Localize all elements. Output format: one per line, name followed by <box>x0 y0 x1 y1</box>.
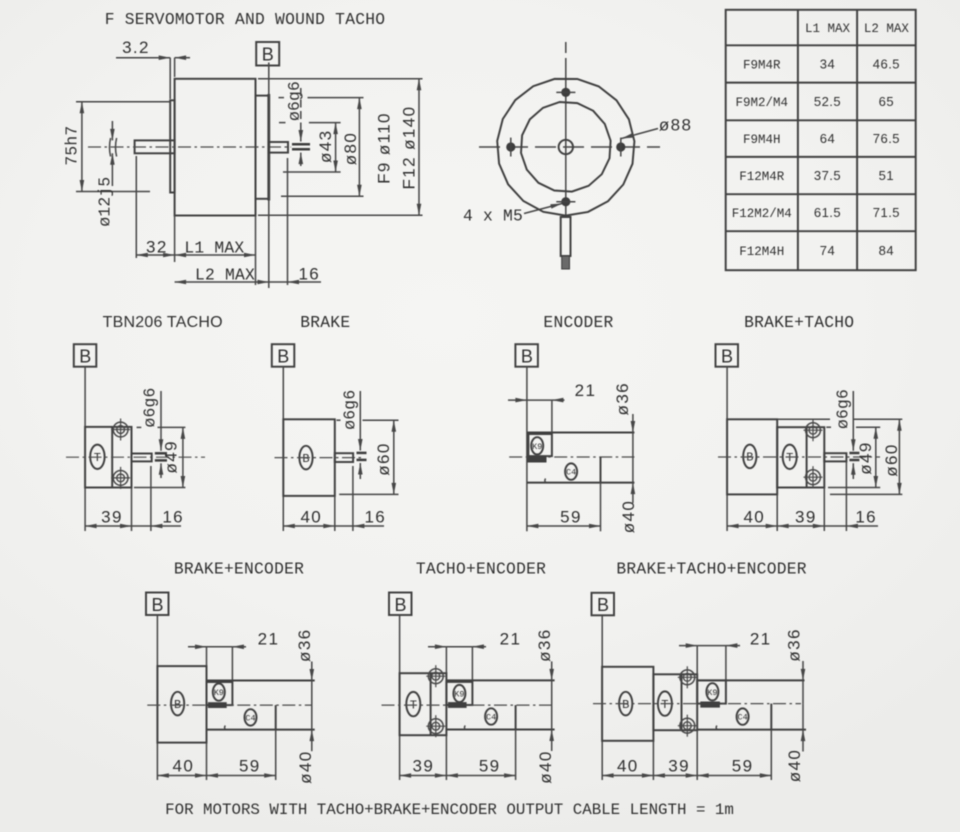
figure TBN206 TACHO <box>66 314 223 531</box>
cable tick <box>716 726 717 730</box>
svg-text:ø40: ø40 <box>785 749 804 783</box>
connector K9 box <box>207 682 233 705</box>
svg-text:40: 40 <box>300 508 322 527</box>
cable foot <box>700 702 720 708</box>
svg-text:59: 59 <box>239 757 261 776</box>
svg-text:ø36: ø36 <box>535 628 554 662</box>
svg-text:21: 21 <box>750 630 772 649</box>
bolt hole top <box>561 88 570 97</box>
svg-text:K9: K9 <box>532 442 542 452</box>
svg-text:76.5: 76.5 <box>873 131 900 146</box>
svg-text:16: 16 <box>364 508 386 527</box>
main side view: F servomotor <box>62 10 422 288</box>
shaft break arcs <box>110 138 117 157</box>
svg-text:B: B <box>302 452 309 466</box>
figure BRAKE <box>272 313 399 531</box>
dim 59 <box>600 483 602 532</box>
svg-text:B: B <box>521 347 533 367</box>
svg-text:K9: K9 <box>214 688 224 698</box>
svg-text:F SERVOMOTOR AND WOUND TACHO: F SERVOMOTOR AND WOUND TACHO <box>105 10 386 29</box>
front shaft <box>135 140 175 153</box>
svg-text:F9M2/M4: F9M2/M4 <box>736 96 789 110</box>
svg-text:T: T <box>94 451 101 465</box>
svg-text:B: B <box>79 347 91 367</box>
svg-text:75h7: 75h7 <box>62 126 81 166</box>
svg-text:C4: C4 <box>245 713 255 723</box>
svg-text:BRAKE+TACHO+ENCODER: BRAKE+TACHO+ENCODER <box>616 560 806 579</box>
svg-text:K9: K9 <box>707 688 717 698</box>
svg-text:ø60: ø60 <box>882 443 901 477</box>
figure ENCODER <box>508 313 638 533</box>
svg-text:ø80: ø80 <box>341 132 360 166</box>
rear shaft break bars <box>292 143 310 146</box>
bottom shaft <box>561 217 571 256</box>
encoder bottom contour ø40 <box>207 729 315 731</box>
svg-text:B: B <box>277 347 289 367</box>
encoder bottom contour ø40 <box>446 729 554 731</box>
centerline <box>509 456 634 458</box>
svg-text:C4: C4 <box>486 713 496 723</box>
screws <box>678 666 697 688</box>
front view <box>463 42 692 269</box>
screws <box>804 419 823 441</box>
svg-text:C4: C4 <box>566 468 576 478</box>
svg-text:32: 32 <box>146 238 168 257</box>
svg-text:ø6g6: ø6g6 <box>834 389 853 429</box>
tacho body <box>777 427 824 487</box>
cable tick <box>545 479 546 483</box>
bottom extension lines <box>135 156 137 258</box>
connector B <box>299 446 312 470</box>
svg-text:59: 59 <box>479 757 501 776</box>
cable tick <box>464 726 465 730</box>
bottom dims 39 / 59 <box>445 735 447 780</box>
svg-text:BRAKE+TACHO: BRAKE+TACHO <box>744 313 854 332</box>
cable foot <box>527 456 547 463</box>
svg-text:65: 65 <box>879 94 894 109</box>
bolt hole left <box>506 142 515 151</box>
svg-text:21: 21 <box>575 381 597 400</box>
svg-text:C4: C4 <box>737 713 747 723</box>
svg-text:40: 40 <box>743 508 765 527</box>
svg-text:16: 16 <box>855 508 877 527</box>
connector C4 <box>245 709 257 725</box>
horizontal centerline <box>479 146 660 148</box>
svg-text:16: 16 <box>162 508 184 527</box>
brake body <box>283 419 335 496</box>
tacho body <box>400 673 447 735</box>
motor body <box>175 79 256 216</box>
svg-text:BRAKE+ENCODER: BRAKE+ENCODER <box>174 560 304 579</box>
svg-text:B: B <box>721 347 733 367</box>
svg-text:T: T <box>661 698 668 712</box>
svg-text:40: 40 <box>173 757 195 776</box>
svg-text:ø40: ø40 <box>536 750 555 784</box>
svg-text:39: 39 <box>795 508 817 527</box>
shaft <box>335 453 353 462</box>
svg-text:F12 ø140: F12 ø140 <box>400 106 419 190</box>
rear housing <box>256 96 269 199</box>
centerline <box>147 704 312 706</box>
datum B <box>716 344 739 367</box>
centerline <box>66 456 205 458</box>
bolt hole bottom <box>561 197 570 206</box>
connector K9 box <box>528 434 552 456</box>
datum B <box>272 344 295 367</box>
svg-text:84: 84 <box>879 243 894 258</box>
tacho body <box>653 674 697 730</box>
svg-text:39: 39 <box>101 508 123 527</box>
svg-text:F9M4H: F9M4H <box>743 133 781 147</box>
figure TACHO+ENCODER <box>382 560 555 784</box>
svg-text:3.2: 3.2 <box>122 38 150 57</box>
datum B box <box>256 42 279 66</box>
svg-text:B: B <box>622 698 629 712</box>
encoder top contour ø36 <box>527 432 635 434</box>
svg-text:ENCODER: ENCODER <box>543 313 613 332</box>
bottom dims 40 / 39 / 16 <box>776 494 778 531</box>
connector T <box>658 691 672 715</box>
centerline <box>275 457 363 459</box>
encoder bottom contour ø40 <box>527 482 635 484</box>
svg-text:B: B <box>151 595 163 615</box>
connector T <box>90 445 104 469</box>
svg-text:21: 21 <box>258 630 280 649</box>
svg-text:ø49: ø49 <box>162 440 181 474</box>
screws <box>426 665 445 687</box>
svg-text:4 x M5: 4 x M5 <box>463 207 523 226</box>
encoder top contour ø36 <box>446 679 554 681</box>
connector B <box>171 692 184 716</box>
svg-text:B: B <box>597 595 609 615</box>
section line B <box>268 63 270 289</box>
svg-text:59: 59 <box>732 757 754 776</box>
connector B <box>743 445 756 469</box>
connector K9 box <box>446 682 472 705</box>
svg-text:F9 ø110: F9 ø110 <box>374 112 393 184</box>
encoder top contour ø36 <box>207 680 315 682</box>
svg-text:F12M2/M4: F12M2/M4 <box>732 207 792 221</box>
svg-text:59: 59 <box>560 508 582 527</box>
svg-text:L2 MAX: L2 MAX <box>864 22 910 36</box>
dimension table <box>726 10 916 270</box>
bottom dims 39 / 16 <box>131 488 133 532</box>
svg-text:T: T <box>786 451 793 465</box>
center hole <box>559 140 573 154</box>
svg-text:74: 74 <box>820 243 835 258</box>
svg-text:ø6g6: ø6g6 <box>341 390 360 430</box>
bottom dims 40 / 59 <box>206 743 208 780</box>
figure BRAKE+TACHO+ENCODER <box>592 560 807 783</box>
inner circle ø88 <box>521 102 611 192</box>
svg-text:34: 34 <box>820 56 835 71</box>
centerline <box>88 146 291 148</box>
tacho body <box>85 427 131 488</box>
brake body <box>727 419 777 494</box>
svg-text:ø36: ø36 <box>785 628 804 662</box>
screws <box>111 419 130 441</box>
svg-text:21: 21 <box>500 630 522 649</box>
svg-text:40: 40 <box>617 757 639 776</box>
centerline <box>718 456 880 458</box>
cable foot <box>448 702 467 708</box>
shaft break bars <box>155 452 167 455</box>
connector K9 box <box>697 680 726 703</box>
connector T <box>783 445 797 469</box>
figure BRAKE+ENCODER <box>146 560 315 784</box>
bottom dims 40 / 39 / 59 <box>652 741 654 780</box>
brake body <box>602 667 653 741</box>
shaft break bars <box>357 452 367 455</box>
shaft <box>132 454 152 462</box>
front flange <box>170 100 174 192</box>
bolt hole right <box>616 142 625 151</box>
svg-text:B: B <box>394 595 406 615</box>
encoder top contour ø36 <box>697 679 804 681</box>
svg-text:L1 MAX: L1 MAX <box>805 22 851 36</box>
svg-text:ø36: ø36 <box>295 628 314 662</box>
svg-text:F12M4R: F12M4R <box>739 170 785 184</box>
svg-text:ø60: ø60 <box>374 442 393 476</box>
svg-text:ø40: ø40 <box>619 500 638 534</box>
figure BRAKE+TACHO <box>716 313 903 531</box>
svg-text:52.5: 52.5 <box>814 94 841 109</box>
connector C4 <box>737 708 749 724</box>
section plane B thick edge <box>267 94 270 201</box>
svg-text:71.5: 71.5 <box>873 205 900 220</box>
centerline <box>593 703 801 705</box>
svg-text:ø49: ø49 <box>856 441 875 475</box>
cable foot <box>208 702 227 708</box>
centerline <box>382 704 553 706</box>
rear shaft <box>269 142 288 153</box>
datum B <box>515 344 538 367</box>
svg-text:64: 64 <box>820 131 835 146</box>
svg-text:K9: K9 <box>454 690 464 700</box>
svg-text:37.5: 37.5 <box>814 168 841 183</box>
shaft break bars <box>849 452 859 455</box>
datum B <box>592 593 615 616</box>
svg-text:ø43: ø43 <box>316 130 335 164</box>
svg-text:61.5: 61.5 <box>814 205 841 220</box>
datum B <box>74 344 97 367</box>
svg-text:TBN206 TACHO: TBN206 TACHO <box>103 314 223 331</box>
bottom dims 40 / 16 <box>334 496 336 531</box>
datum B <box>389 593 412 616</box>
svg-text:16: 16 <box>298 265 320 284</box>
connector T <box>406 692 420 716</box>
svg-text:FOR MOTORS WITH TACHO+BRAKE+EN: FOR MOTORS WITH TACHO+BRAKE+ENCODER OUTP… <box>165 801 734 819</box>
outer circle ø110 <box>497 79 634 216</box>
brake body <box>157 666 206 743</box>
svg-text:39: 39 <box>668 757 690 776</box>
svg-text:ø40: ø40 <box>296 750 315 784</box>
shaft <box>824 453 846 461</box>
svg-text:39: 39 <box>413 757 435 776</box>
svg-text:F12M4H: F12M4H <box>739 245 784 259</box>
svg-text:B: B <box>262 45 274 65</box>
svg-text:TACHO+ENCODER: TACHO+ENCODER <box>416 560 546 579</box>
connector C4 <box>565 463 577 479</box>
cable tick <box>225 726 226 730</box>
svg-text:ø36: ø36 <box>613 382 632 416</box>
threaded tip <box>562 256 570 269</box>
svg-text:F9M4R: F9M4R <box>743 58 781 72</box>
connector B <box>619 692 632 716</box>
encoder bottom contour ø40 <box>697 729 806 731</box>
connector C4 <box>485 708 497 724</box>
svg-text:ø88: ø88 <box>659 116 693 135</box>
svg-text:46.5: 46.5 <box>873 56 900 71</box>
svg-text:ø6g6: ø6g6 <box>141 387 160 427</box>
svg-text:51: 51 <box>879 168 894 183</box>
vertical centerline <box>565 42 567 53</box>
svg-text:BRAKE: BRAKE <box>300 313 350 332</box>
datum B <box>146 593 169 616</box>
